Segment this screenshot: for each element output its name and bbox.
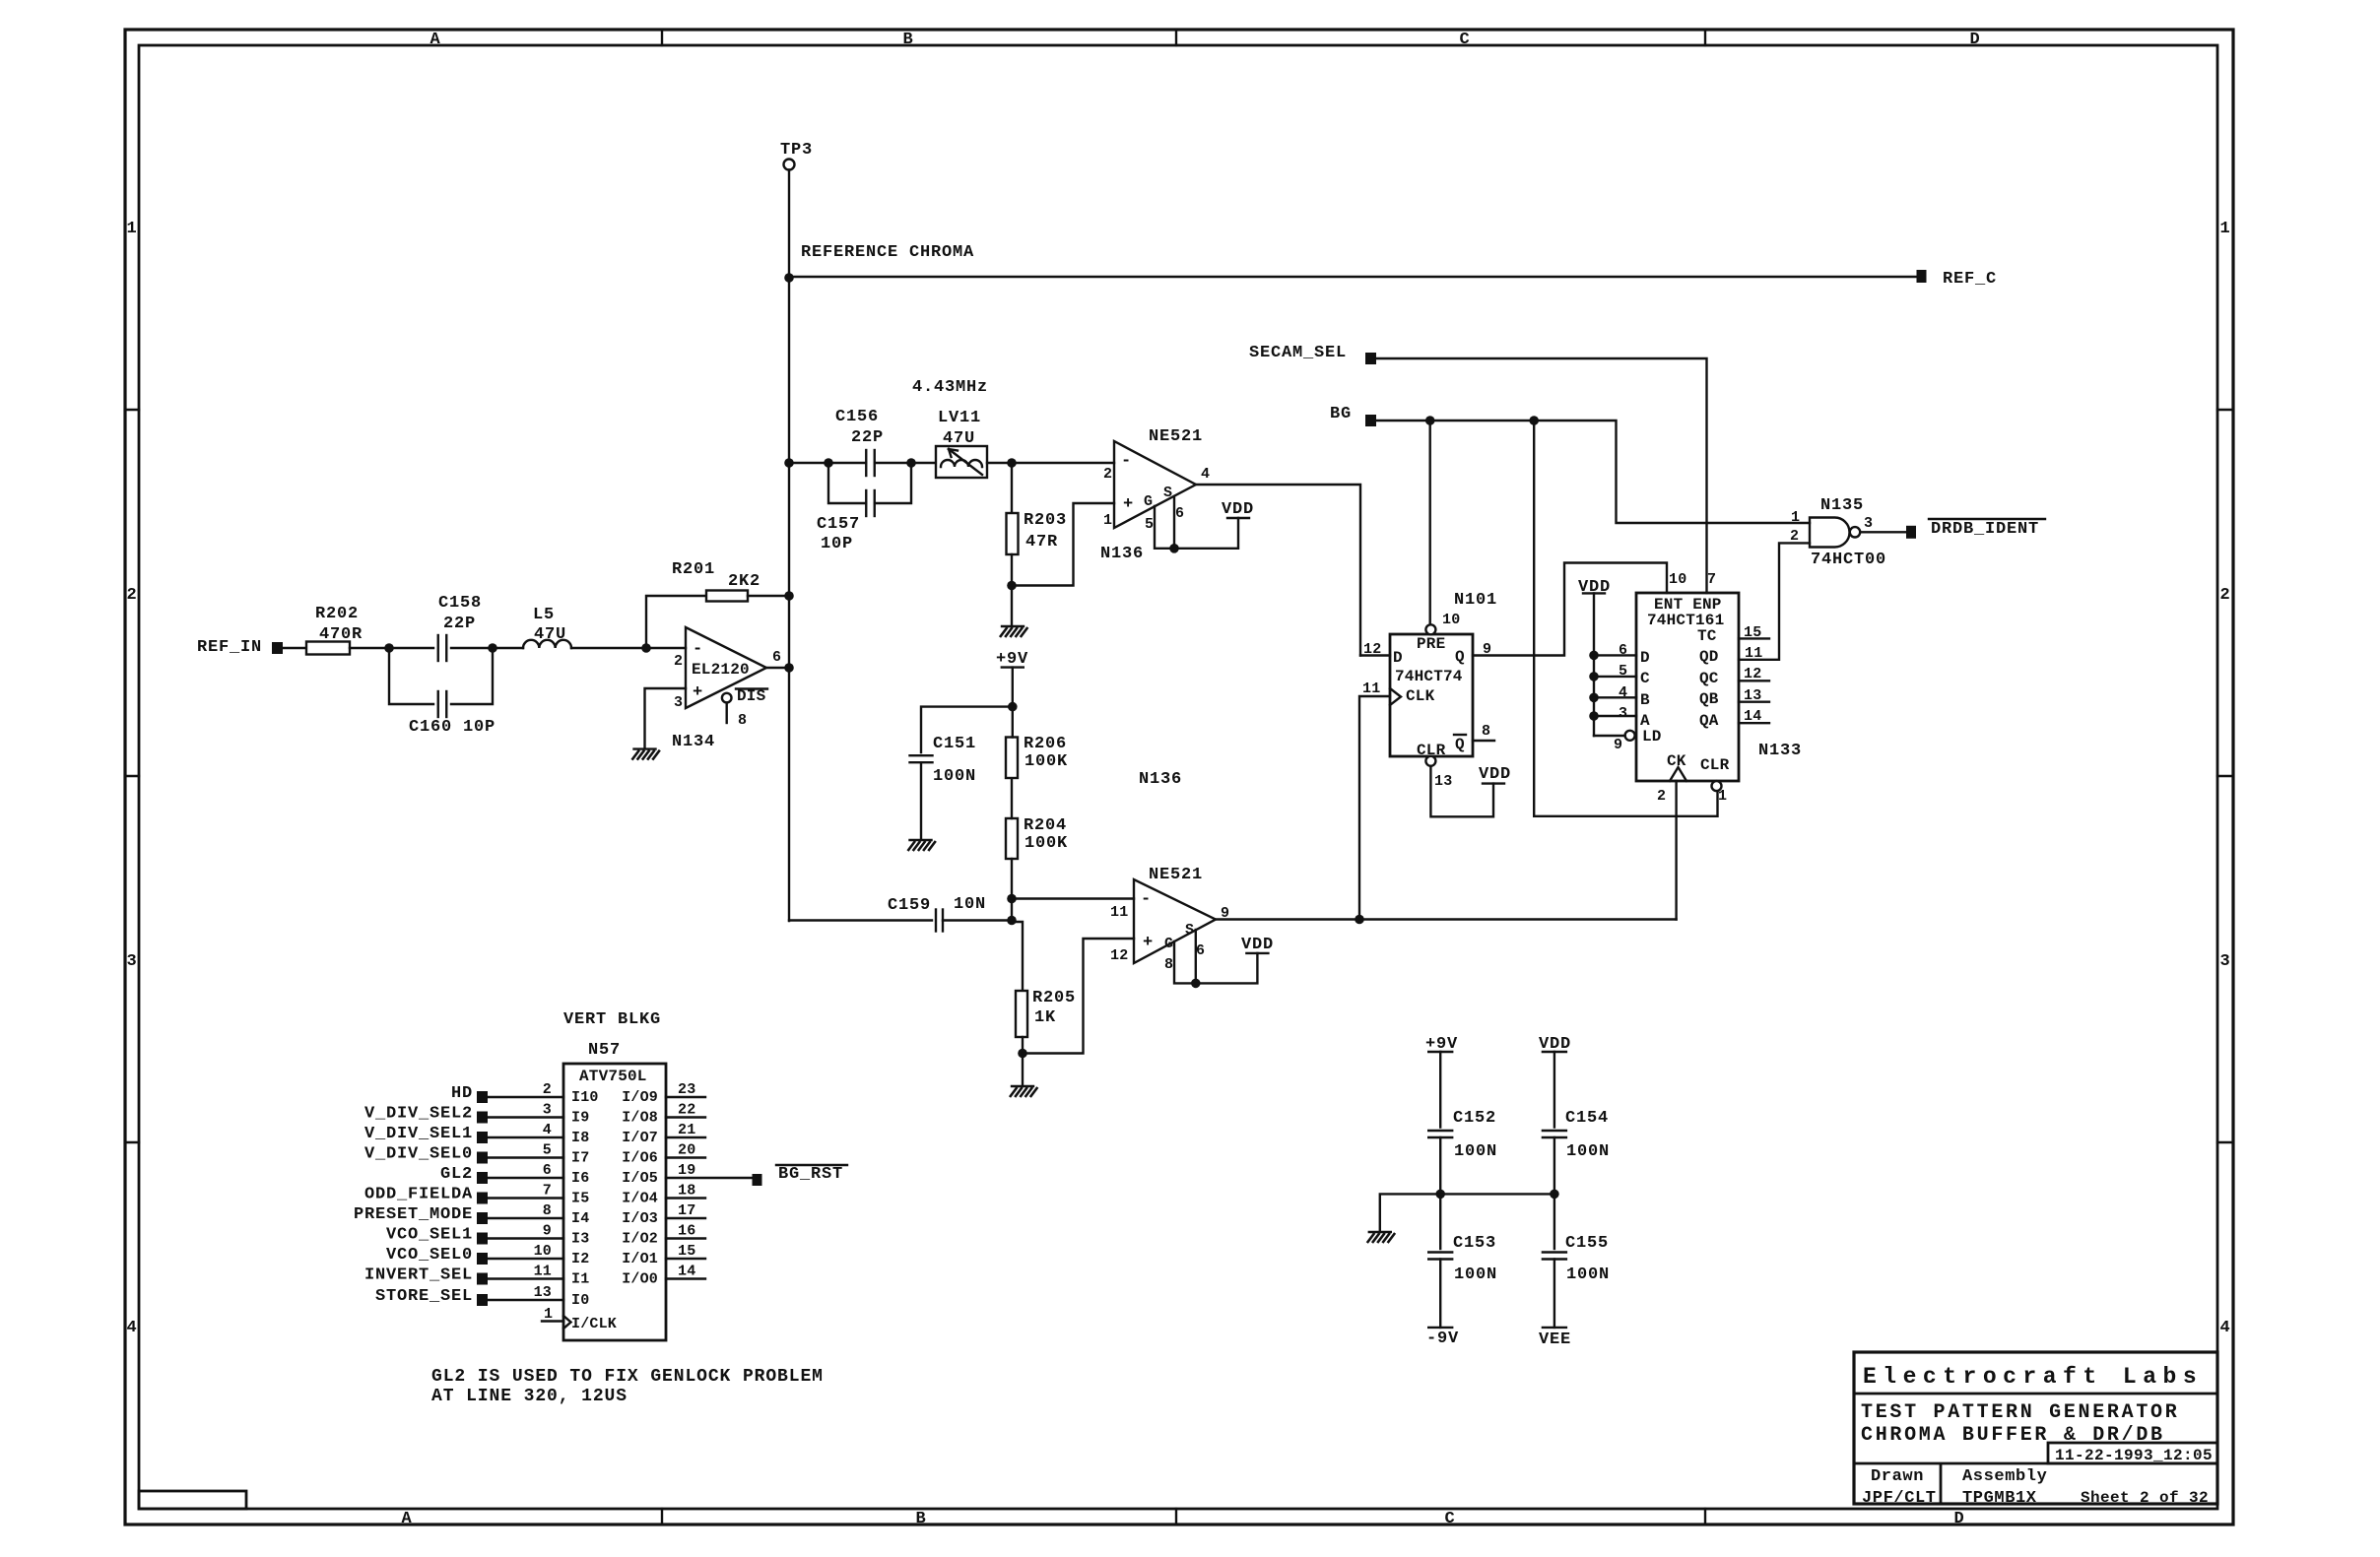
wire from buffer output xyxy=(789,919,932,921)
svg-text:VERT BLKG: VERT BLKG xyxy=(563,1010,661,1029)
svg-text:7: 7 xyxy=(543,1183,552,1200)
svg-text:+: + xyxy=(1143,934,1154,952)
svg-text:R205: R205 xyxy=(1032,989,1076,1007)
wire TP3 main vertical xyxy=(788,170,790,922)
port REF_C xyxy=(1917,270,1998,289)
svg-text:Assembly: Assembly xyxy=(1962,1467,2047,1486)
svg-text:3: 3 xyxy=(1864,515,1873,532)
svg-text:19: 19 xyxy=(678,1162,695,1179)
svg-text:I2: I2 xyxy=(571,1251,589,1267)
svg-text:C160 10P: C160 10P xyxy=(409,718,496,737)
svg-text:10: 10 xyxy=(1442,612,1460,628)
svg-text:21: 21 xyxy=(678,1122,695,1138)
wire to ground xyxy=(1380,1194,1440,1231)
svg-text:I5: I5 xyxy=(571,1191,589,1207)
svg-text:6: 6 xyxy=(1196,942,1205,959)
svg-text:C152: C152 xyxy=(1453,1109,1496,1128)
wire BG branch to CLR xyxy=(1534,421,1717,816)
svg-text:I/O5: I/O5 xyxy=(622,1170,658,1187)
test point TP3 xyxy=(780,141,813,170)
inductor L5 xyxy=(493,606,646,648)
svg-text:1K: 1K xyxy=(1034,1008,1056,1027)
node xyxy=(1355,915,1364,925)
svg-text:8: 8 xyxy=(738,712,747,729)
port HD xyxy=(451,1084,488,1103)
VDD symbol (N136 upper strobe) xyxy=(1155,496,1254,553)
node xyxy=(1007,916,1017,926)
svg-text:+: + xyxy=(693,683,703,702)
node xyxy=(488,643,497,653)
wire LD input xyxy=(1594,735,1625,737)
svg-text:BG: BG xyxy=(1330,405,1352,423)
wire (+ input pin 12) xyxy=(1023,939,1134,1054)
stub TC pin 15 xyxy=(1739,637,1769,639)
resistor R201 xyxy=(672,560,760,602)
port GL2 xyxy=(440,1165,488,1184)
svg-text:V_DIV_SEL0: V_DIV_SEL0 xyxy=(364,1145,473,1164)
node xyxy=(1529,416,1539,425)
stub QA pin 14 xyxy=(1739,722,1769,724)
svg-text:BG_RST: BG_RST xyxy=(778,1165,843,1184)
svg-text:3: 3 xyxy=(126,952,137,971)
svg-text:-9V: -9V xyxy=(1426,1330,1459,1348)
svg-text:I0: I0 xyxy=(571,1292,589,1309)
wire HD to I10 xyxy=(488,1081,599,1106)
svg-text:4.43MHz: 4.43MHz xyxy=(912,378,988,397)
svg-text:R201: R201 xyxy=(672,560,715,579)
wire CLK input xyxy=(1359,696,1390,920)
svg-text:3: 3 xyxy=(2219,952,2230,971)
pin 15 I/O1 xyxy=(622,1243,705,1267)
port STORE_SEL xyxy=(375,1287,488,1306)
svg-text:PRESET_MODE: PRESET_MODE xyxy=(354,1205,473,1224)
svg-text:R202: R202 xyxy=(315,605,359,623)
svg-text:+9V: +9V xyxy=(996,650,1028,669)
wire to ground xyxy=(1011,586,1013,626)
svg-text:I8: I8 xyxy=(571,1130,589,1146)
svg-text:VDD: VDD xyxy=(1222,500,1254,519)
capacitor C158 xyxy=(389,594,493,661)
node xyxy=(784,663,794,673)
svg-text:EL2120: EL2120 xyxy=(692,661,750,679)
svg-text:11: 11 xyxy=(534,1264,552,1280)
svg-text:3: 3 xyxy=(1619,705,1627,722)
svg-text:R206: R206 xyxy=(1024,735,1067,753)
svg-text:100K: 100K xyxy=(1025,752,1068,771)
wire xyxy=(1440,1193,1554,1195)
svg-text:I/O2: I/O2 xyxy=(622,1231,658,1248)
svg-text:HD: HD xyxy=(451,1084,473,1103)
node xyxy=(1007,458,1017,468)
port INVERT_SEL xyxy=(364,1266,488,1285)
node xyxy=(1435,1190,1445,1200)
svg-text:A: A xyxy=(430,31,440,49)
power VDD (N101 CLR) xyxy=(1479,765,1511,784)
ground xyxy=(908,840,936,851)
wire D input xyxy=(1589,651,1599,661)
svg-text:20: 20 xyxy=(678,1142,695,1159)
wire B input xyxy=(1589,693,1599,703)
inductor LV11 xyxy=(911,378,1012,478)
svg-text:C154: C154 xyxy=(1565,1109,1609,1128)
resistor R205 xyxy=(1012,922,1076,1054)
node xyxy=(1008,702,1018,712)
svg-text:I/O1: I/O1 xyxy=(622,1251,658,1267)
wire V_DIV_SEL1 to I8 xyxy=(488,1122,589,1146)
svg-text:10P: 10P xyxy=(821,535,853,553)
svg-text:6: 6 xyxy=(1175,505,1184,522)
resistor R203 xyxy=(1007,463,1068,586)
wire C input xyxy=(1589,672,1599,681)
svg-text:N134: N134 xyxy=(672,733,715,751)
stub QC pin 12 xyxy=(1739,680,1769,681)
wire NAND output xyxy=(1860,531,1906,533)
svg-text:C155: C155 xyxy=(1565,1234,1609,1253)
svg-text:QA: QA xyxy=(1699,712,1719,730)
wire (- input) xyxy=(646,647,686,649)
node xyxy=(824,458,833,468)
resistor R202 xyxy=(306,605,363,655)
svg-text:4: 4 xyxy=(1201,466,1210,483)
node xyxy=(784,458,794,468)
svg-text:6: 6 xyxy=(543,1162,552,1179)
svg-text:NE521: NE521 xyxy=(1149,427,1203,446)
VDD symbol (N136 lower strobe) xyxy=(1174,930,1274,988)
svg-text:2: 2 xyxy=(1790,528,1799,545)
svg-text:I/O3: I/O3 xyxy=(622,1210,658,1227)
pin 18 I/O4 xyxy=(622,1183,705,1207)
svg-text:1: 1 xyxy=(2219,220,2230,238)
svg-text:I6: I6 xyxy=(571,1170,589,1187)
svg-text:REFERENCE CHROMA: REFERENCE CHROMA xyxy=(801,243,974,262)
svg-text:LV11: LV11 xyxy=(938,409,981,427)
svg-text:TC: TC xyxy=(1697,627,1717,645)
comparator N136 NE521 (lower) xyxy=(1110,770,1229,973)
capacitor C156 xyxy=(828,408,911,476)
svg-text:I1: I1 xyxy=(571,1271,589,1288)
svg-text:2K2: 2K2 xyxy=(728,572,760,591)
svg-text:Q: Q xyxy=(1455,736,1465,753)
svg-text:22P: 22P xyxy=(443,615,476,633)
svg-text:C: C xyxy=(1444,1510,1455,1528)
wire STORE_SEL to I0 xyxy=(488,1284,589,1309)
svg-text:7: 7 xyxy=(1707,571,1716,588)
svg-text:+: + xyxy=(1123,495,1134,514)
pin 20 I/O6 xyxy=(622,1142,705,1167)
svg-text:1: 1 xyxy=(126,220,137,238)
ground xyxy=(632,749,660,760)
svg-text:47U: 47U xyxy=(943,429,975,448)
svg-text:4: 4 xyxy=(2219,1319,2230,1337)
stub Q-bar pin 8 xyxy=(1473,740,1494,742)
node xyxy=(906,458,916,468)
svg-text:QC: QC xyxy=(1699,670,1719,687)
svg-text:16: 16 xyxy=(678,1223,695,1240)
svg-text:VDD: VDD xyxy=(1479,765,1511,784)
pin 23 I/O9 xyxy=(622,1081,705,1106)
svg-text:100K: 100K xyxy=(1025,834,1068,853)
svg-text:V_DIV_SEL2: V_DIV_SEL2 xyxy=(364,1105,473,1124)
wire xyxy=(748,595,789,597)
svg-text:REF_C: REF_C xyxy=(1943,270,1997,289)
capacitor C157 xyxy=(817,463,911,553)
svg-text:VDD: VDD xyxy=(1241,936,1274,954)
svg-text:2: 2 xyxy=(1103,466,1112,483)
capacitor C159 xyxy=(888,895,1012,932)
svg-text:12: 12 xyxy=(1110,947,1128,964)
svg-text:I/O7: I/O7 xyxy=(622,1130,658,1146)
nand gate N135 74HCT00 xyxy=(1790,496,1886,569)
wire INVERT_SEL to I1 xyxy=(488,1264,589,1288)
svg-text:22P: 22P xyxy=(851,428,884,447)
capacitor C151 xyxy=(910,735,977,839)
svg-text:100N: 100N xyxy=(933,767,976,786)
counter N133 74HCT161 xyxy=(1614,571,1802,805)
svg-text:I/O8: I/O8 xyxy=(622,1110,658,1127)
svg-text:R203: R203 xyxy=(1024,511,1067,530)
svg-text:G: G xyxy=(1164,936,1173,952)
wire V_DIV_SEL0 to I7 xyxy=(488,1142,589,1167)
node xyxy=(784,591,794,601)
svg-text:STORE_SEL: STORE_SEL xyxy=(375,1287,473,1306)
svg-text:2: 2 xyxy=(126,586,137,605)
svg-text:470R: 470R xyxy=(319,625,363,644)
node xyxy=(1007,581,1017,591)
flip-flop N101 74HCT74 xyxy=(1362,591,1497,790)
svg-text:TP3: TP3 xyxy=(780,141,813,160)
svg-text:23: 23 xyxy=(678,1081,695,1098)
svg-text:C153: C153 xyxy=(1453,1234,1496,1253)
svg-text:14: 14 xyxy=(678,1264,695,1280)
svg-text:10N: 10N xyxy=(954,895,986,914)
port SECAM_SEL xyxy=(1249,344,1376,364)
svg-text:C157: C157 xyxy=(817,515,860,534)
svg-text:ODD_FIELDA: ODD_FIELDA xyxy=(364,1186,473,1204)
svg-text:47U: 47U xyxy=(534,625,566,644)
svg-text:CLR: CLR xyxy=(1700,756,1730,774)
svg-text:AT LINE 320, 12US: AT LINE 320, 12US xyxy=(431,1387,628,1406)
svg-text:5: 5 xyxy=(543,1142,552,1159)
wire xyxy=(350,647,389,649)
svg-text:TEST PATTERN GENERATOR: TEST PATTERN GENERATOR xyxy=(1861,1401,2179,1424)
stub QB pin 13 xyxy=(1739,701,1769,703)
svg-text:11: 11 xyxy=(1110,904,1128,921)
wire REF_C net xyxy=(789,276,1916,278)
svg-text:-: - xyxy=(693,640,703,659)
wire (+ input) xyxy=(645,688,687,748)
svg-text:QD: QD xyxy=(1699,648,1719,666)
port V_DIV_SEL1 xyxy=(364,1125,488,1143)
svg-text:ATV750L: ATV750L xyxy=(579,1068,647,1085)
svg-text:11: 11 xyxy=(1362,681,1380,697)
power -9V xyxy=(1426,1328,1459,1348)
wire Q to ENT xyxy=(1473,563,1667,656)
port V_DIV_SEL0 xyxy=(364,1145,488,1164)
svg-text:100N: 100N xyxy=(1454,1142,1497,1161)
svg-text:GL2: GL2 xyxy=(440,1165,473,1184)
power VEE xyxy=(1539,1328,1571,1349)
svg-text:4: 4 xyxy=(543,1122,552,1138)
wire (+ input pin 1) xyxy=(1012,503,1114,586)
svg-text:8: 8 xyxy=(1164,956,1173,973)
svg-text:JPF/CLT: JPF/CLT xyxy=(1862,1489,1937,1508)
svg-text:8: 8 xyxy=(543,1202,552,1219)
svg-text:B: B xyxy=(1640,691,1650,709)
pin 1 I/CLK xyxy=(542,1306,617,1332)
svg-text:N133: N133 xyxy=(1758,742,1802,760)
wire V_DIV_SEL2 to I9 xyxy=(488,1102,589,1127)
svg-text:N57: N57 xyxy=(588,1041,621,1060)
svg-text:100N: 100N xyxy=(1566,1265,1610,1284)
svg-text:9: 9 xyxy=(1614,737,1622,753)
svg-text:D: D xyxy=(1969,31,1980,49)
power +9V (C152) xyxy=(1425,1035,1458,1128)
port PRESET_MODE xyxy=(354,1205,488,1224)
svg-text:CK: CK xyxy=(1667,752,1686,770)
svg-text:Drawn: Drawn xyxy=(1871,1467,1924,1486)
wire D input xyxy=(1360,654,1390,656)
wire PRE from BG xyxy=(1428,421,1430,624)
node xyxy=(1018,1049,1027,1059)
svg-text:INVERT_SEL: INVERT_SEL xyxy=(364,1266,473,1285)
wire to C151 xyxy=(921,707,1013,752)
svg-text:12: 12 xyxy=(1363,641,1381,658)
svg-text:D: D xyxy=(1640,649,1650,667)
svg-text:100N: 100N xyxy=(1454,1265,1497,1284)
resistor R206 xyxy=(1006,735,1068,778)
wire (- input pin 11) xyxy=(1012,897,1134,899)
svg-text:PRE: PRE xyxy=(1417,635,1445,653)
svg-text:G: G xyxy=(1144,493,1153,510)
pin 19 I/O5 xyxy=(622,1162,752,1187)
wire output pin 4 xyxy=(1196,485,1360,656)
node xyxy=(384,643,394,653)
svg-text:I10: I10 xyxy=(571,1089,599,1106)
capacitor C160 xyxy=(389,648,496,737)
svg-text:13: 13 xyxy=(1434,773,1452,790)
wire xyxy=(1011,899,1013,921)
svg-text:C156: C156 xyxy=(835,408,879,426)
svg-text:C: C xyxy=(1459,31,1470,49)
pin 22 I/O8 xyxy=(622,1102,705,1127)
svg-text:N136: N136 xyxy=(1139,770,1182,789)
svg-text:B: B xyxy=(915,1510,926,1528)
svg-text:GL2 IS USED TO FIX GENLOCK PRO: GL2 IS USED TO FIX GENLOCK PROBLEM xyxy=(431,1367,824,1387)
svg-text:TPGMB1X: TPGMB1X xyxy=(1962,1489,2037,1508)
svg-text:100N: 100N xyxy=(1566,1142,1610,1161)
svg-text:CLK: CLK xyxy=(1406,687,1435,705)
svg-text:22: 22 xyxy=(678,1102,695,1119)
svg-text:D: D xyxy=(1953,1510,1964,1528)
svg-text:74HCT74: 74HCT74 xyxy=(1395,668,1463,685)
op-amp N134 EL2120 xyxy=(672,627,781,751)
wire to pin 2 xyxy=(1012,462,1114,464)
svg-text:N135: N135 xyxy=(1820,496,1864,515)
svg-text:I3: I3 xyxy=(571,1231,589,1248)
wire VCO_SEL1 to I3 xyxy=(488,1223,589,1248)
power VDD rail (N133 inputs) xyxy=(1578,578,1611,736)
svg-text:Sheet 2 of 32: Sheet 2 of 32 xyxy=(2081,1489,2209,1507)
ground xyxy=(1000,626,1027,637)
wire QD pin 11 to NAND pin 2 xyxy=(1739,543,1810,659)
svg-text:1: 1 xyxy=(1103,512,1112,529)
svg-text:I7: I7 xyxy=(571,1150,589,1167)
wire PRESET_MODE to I4 xyxy=(488,1202,589,1227)
svg-text:2: 2 xyxy=(2219,586,2230,605)
svg-text:C: C xyxy=(1640,670,1650,687)
resistor R204 xyxy=(1006,816,1068,899)
capacitor C154 xyxy=(1543,1109,1610,1194)
svg-text:I4: I4 xyxy=(571,1210,589,1227)
note text xyxy=(431,1367,824,1406)
svg-text:B: B xyxy=(902,31,913,49)
svg-text:2: 2 xyxy=(674,653,683,670)
svg-text:NE521: NE521 xyxy=(1149,866,1203,884)
svg-text:Electrocraft Labs: Electrocraft Labs xyxy=(1863,1364,2203,1390)
svg-text:9: 9 xyxy=(543,1223,552,1240)
wire xyxy=(789,462,828,464)
svg-text:I/O6: I/O6 xyxy=(622,1150,658,1167)
svg-text:A: A xyxy=(401,1510,412,1528)
capacitor C152 xyxy=(1428,1109,1497,1194)
pin 17 I/O3 xyxy=(622,1202,705,1227)
svg-text:3: 3 xyxy=(543,1102,552,1119)
svg-text:74HCT00: 74HCT00 xyxy=(1811,551,1886,569)
node xyxy=(784,273,794,283)
port BG xyxy=(1330,405,1376,426)
wire to ground xyxy=(1022,1054,1024,1086)
svg-text:10: 10 xyxy=(1669,571,1686,588)
comparator N136 NE521 (upper) xyxy=(1100,427,1210,563)
pin 21 I/O7 xyxy=(622,1122,705,1146)
ground xyxy=(1010,1086,1037,1097)
svg-text:C151: C151 xyxy=(933,735,976,753)
svg-text:15: 15 xyxy=(678,1243,695,1260)
svg-text:3: 3 xyxy=(674,694,683,711)
svg-text:2: 2 xyxy=(1657,788,1666,805)
svg-text:V_DIV_SEL1: V_DIV_SEL1 xyxy=(364,1125,473,1143)
svg-text:I/CLK: I/CLK xyxy=(571,1316,617,1332)
wire CK from clock net xyxy=(1675,781,1677,920)
svg-text:S: S xyxy=(1185,922,1194,939)
svg-text:REF_IN: REF_IN xyxy=(197,638,262,657)
svg-text:S: S xyxy=(1163,485,1172,501)
ground xyxy=(1367,1232,1395,1243)
wire BG to NAND pin 1 xyxy=(1376,421,1810,523)
svg-text:5: 5 xyxy=(1145,516,1154,533)
wire xyxy=(1011,778,1013,818)
svg-text:N101: N101 xyxy=(1454,591,1497,610)
svg-text:VEE: VEE xyxy=(1539,1330,1571,1349)
port DRDB_IDENT xyxy=(1906,519,2045,539)
wire CLR to VDD xyxy=(1430,766,1493,817)
svg-text:6: 6 xyxy=(772,649,781,666)
pin 16 I/O2 xyxy=(622,1223,705,1248)
svg-text:I9: I9 xyxy=(571,1110,589,1127)
svg-text:Q: Q xyxy=(1455,648,1465,666)
svg-text:-: - xyxy=(1141,890,1152,909)
port VCO_SEL1 xyxy=(386,1226,488,1245)
capacitor C155 xyxy=(1543,1194,1610,1328)
node xyxy=(1550,1190,1559,1200)
svg-text:LD: LD xyxy=(1642,728,1662,746)
svg-text:10: 10 xyxy=(534,1243,552,1260)
svg-text:-: - xyxy=(1121,452,1132,471)
svg-text:18: 18 xyxy=(678,1183,695,1200)
svg-text:47R: 47R xyxy=(1025,533,1058,551)
node xyxy=(1425,416,1435,425)
svg-text:N136: N136 xyxy=(1100,545,1144,563)
